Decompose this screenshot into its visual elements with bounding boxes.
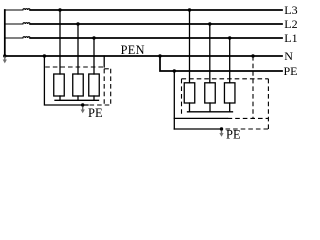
junction dot: PEN tap for left group xyxy=(43,54,46,57)
wire L3 xyxy=(30,9,282,11)
wire: stub below load 4 xyxy=(189,103,191,112)
wire: stub below load 2 xyxy=(77,96,79,100)
source winding W3 on L3 xyxy=(5,9,30,10)
junction dot: left group PE earth point xyxy=(81,103,84,106)
junction dot: PE tap for right group xyxy=(173,69,176,72)
wire L2 xyxy=(30,23,282,25)
wire: drop from L3 to load 1 (left group) xyxy=(59,10,61,74)
junction dot: right group PE earth point xyxy=(220,127,223,130)
wire: stub below load 3 xyxy=(93,96,95,100)
dashed enclosure: right group bottom edge xyxy=(228,117,269,119)
wire: stub below load 6 xyxy=(229,103,231,112)
dashed enclosure: left group tab right edge xyxy=(110,69,112,105)
wire: PEN bond stub to left enclosure xyxy=(103,56,105,67)
wire: left source bus xyxy=(4,10,6,56)
wire: right group neutral link xyxy=(188,111,233,113)
svg-text:N: N xyxy=(284,49,293,63)
junction dot: L2 to right drop xyxy=(208,22,211,25)
svg-text:L1: L1 xyxy=(284,31,297,45)
ground arrow: right group PE xyxy=(219,131,223,137)
svg-text:L2: L2 xyxy=(284,17,297,31)
wire: drop from L2 to load 5 (right group) xyxy=(209,24,211,83)
dashed enclosure: left group top edge xyxy=(45,66,104,68)
svg-text:PE: PE xyxy=(88,106,103,120)
svg-text:PEN: PEN xyxy=(121,43,145,57)
dashed enclosure: right group tab right edge xyxy=(267,79,269,129)
svg-text:PE: PE xyxy=(284,64,298,78)
dashed enclosure: left group tab top edge xyxy=(104,68,111,70)
wire: drop from L3 to load 4 (right group) xyxy=(189,10,191,83)
junction dot: N bond to right enclosure xyxy=(251,54,254,57)
junction dot: L1 to right drop xyxy=(228,36,231,39)
junction dot: N/PE split xyxy=(158,54,161,57)
wire: right group enclosure bond line xyxy=(174,117,227,119)
wire: drop from L2 to load 2 (left group) xyxy=(77,24,79,74)
ground arrow: source earthing xyxy=(3,57,7,64)
svg-text:L3: L3 xyxy=(284,3,297,17)
load resistor 6 (right group) xyxy=(224,83,235,103)
dashed enclosure: right group top edge xyxy=(182,78,269,80)
wire PE (split from N) xyxy=(160,56,282,71)
junction dot: L3 to right drop xyxy=(188,8,191,11)
wire: stub below load 5 xyxy=(209,103,211,112)
junction dot: L3 to left drop xyxy=(58,8,61,11)
load resistor 4 (right group) xyxy=(184,83,195,103)
dashed enclosure: left group bottom edge xyxy=(90,104,111,106)
wire: stub below load 1 xyxy=(59,96,61,100)
wire: PE tap down the left side of right group xyxy=(173,71,175,129)
junction dot: source star point on PEN xyxy=(3,54,6,57)
source winding W2 on L2 xyxy=(5,23,30,24)
wire L1 xyxy=(30,37,282,39)
dashed enclosure: right group left edge xyxy=(181,79,183,116)
dashed enclosure: left group inner right edge xyxy=(103,69,105,105)
wire: left group neutral link xyxy=(55,99,99,101)
svg-text:PE: PE xyxy=(226,128,241,142)
junction dot: L1 to left drop xyxy=(92,36,95,39)
wire: PEN tap down to left group PE point xyxy=(44,56,88,105)
wire: drop from L1 to load 6 (right group) xyxy=(229,38,231,83)
junction dot: L2 to left drop xyxy=(76,22,79,25)
dashed enclosure: right group tab bottom edge xyxy=(226,128,269,130)
wire: drop from L1 to load 3 (left group) xyxy=(93,38,95,74)
wire: right group PE bottom line xyxy=(174,128,221,130)
source winding W1 on L1 xyxy=(5,37,30,38)
load resistor 3 (left group) xyxy=(89,74,100,96)
wire PEN / N xyxy=(5,55,282,57)
load resistor 1 (left group) xyxy=(54,74,65,96)
ground arrow: left group PE xyxy=(81,107,85,114)
dashed bond: N to right enclosure xyxy=(252,56,254,118)
load resistor 2 (left group) xyxy=(73,74,84,96)
load resistor 5 (right group) xyxy=(205,83,216,103)
